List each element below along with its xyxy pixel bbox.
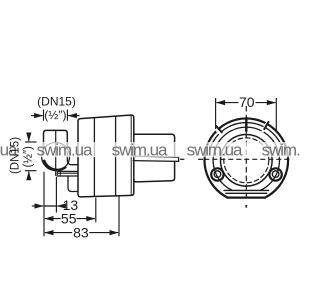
svg-text:70: 70 bbox=[239, 94, 255, 110]
svg-text:(DN15): (DN15) bbox=[9, 137, 21, 174]
svg-text:(½″): (½″) bbox=[23, 146, 35, 167]
svg-text:(½″): (½″) bbox=[44, 108, 66, 122]
svg-text:swim.ua: swim.ua bbox=[262, 140, 300, 159]
svg-text:(DN15): (DN15) bbox=[37, 95, 76, 109]
svg-text:83: 83 bbox=[73, 225, 89, 241]
svg-text:swim.ua: swim.ua bbox=[112, 140, 168, 159]
svg-text:swim.ua: swim.ua bbox=[37, 140, 93, 159]
svg-text:swim.ua: swim.ua bbox=[187, 140, 243, 159]
